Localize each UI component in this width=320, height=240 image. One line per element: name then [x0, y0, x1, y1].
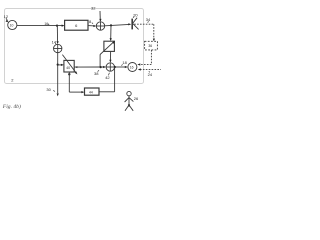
svg-text:14: 14: [52, 39, 57, 44]
node dot below block 40: [68, 73, 70, 75]
summer U14 (circle with cross): [54, 44, 62, 52]
wire: box6 to summer 32: [88, 25, 95, 27]
svg-text:2: 2: [11, 77, 14, 82]
leader 14: [55, 43, 56, 44]
svg-text:42: 42: [105, 75, 110, 80]
leader 8: [92, 23, 93, 24]
wire: summer 32 to transducer 20: [105, 24, 130, 25]
wire: vertical from node(111) into variable block: [110, 25, 112, 39]
wire: variable block bottom into summer 42: [110, 52, 112, 62]
svg-text:30: 30: [46, 87, 51, 92]
arrowhead into summer42 left: [103, 66, 106, 68]
variable block (no label) with diagonal arrow: [104, 41, 115, 51]
svg-text:20: 20: [133, 12, 138, 17]
svg-text:18: 18: [122, 60, 127, 65]
block 40 with diagonal arrow: [64, 60, 74, 72]
svg-text:Fig. 4b): Fig. 4b): [2, 103, 21, 110]
arrowhead into summer 32 top: [99, 19, 101, 22]
arrowhead output 30: [57, 93, 59, 96]
svg-text:40: 40: [66, 66, 70, 70]
wire: vertical from node(57.3) into summer 14: [56, 25, 58, 43]
block 36 (dashed): [153, 39, 155, 42]
wire: main line circle10 to box6: [17, 25, 63, 27]
svg-text:16: 16: [130, 66, 134, 70]
transducer 20 (bar with two diagonals): [131, 19, 133, 30]
wire: dashed from box36 down and left to receiver 16: [150, 50, 152, 64]
arrowhead into box 6: [62, 25, 65, 27]
wire: bottom main line box40 out to summer42 to circle 16: [75, 66, 78, 68]
svg-text:34: 34: [146, 17, 151, 22]
svg-text:38: 38: [94, 71, 99, 76]
leader 18: [121, 64, 122, 65]
node dot 38: [100, 66, 102, 68]
arrowhead into circle 16 left: [125, 66, 128, 68]
svg-text:12: 12: [4, 14, 9, 19]
wire: summer14 down to node and output 30: [57, 53, 59, 93]
enclosure box 2 (light gray): [5, 9, 144, 84]
svg-text:16: 16: [44, 22, 48, 26]
node junction dot at (57.3,24.8): [56, 25, 58, 27]
svg-text:10: 10: [10, 24, 14, 28]
summer U42 (circle with cross): [106, 63, 114, 71]
leader 20: [133, 17, 134, 18]
receiver circle 16: [128, 63, 137, 72]
source circle 10: [8, 20, 17, 29]
leader 34: [148, 21, 149, 22]
svg-text:6: 6: [75, 23, 78, 28]
arrow 12 leader: [6, 18, 8, 21]
leader 42: [108, 73, 109, 76]
wire: block40 bottom down to feedback line: [68, 72, 70, 92]
leader 38: [98, 70, 99, 71]
wire: box44 out right and up to node: [99, 91, 115, 93]
wire: feedback bottom into box 44: [69, 91, 83, 93]
person 26 (stick figure): [127, 91, 131, 95]
svg-text:44: 44: [89, 90, 93, 94]
leader 24: [149, 71, 150, 72]
leader 30: [53, 90, 55, 91]
svg-text:8: 8: [89, 19, 92, 24]
leader 16: [48, 24, 49, 25]
node dot right of summer 42: [114, 66, 116, 68]
block 44: [85, 88, 100, 95]
wire: dashed from person path into receiver 16: [140, 69, 161, 71]
arrowhead into summer 32: [93, 25, 96, 27]
svg-text:36: 36: [148, 44, 152, 48]
wire: node to block 40: [58, 64, 63, 66]
wire: wiper tail down to node 38: [99, 54, 101, 67]
summer U32 (circle with cross): [96, 22, 104, 30]
node dot below summer 14: [57, 64, 59, 66]
block 6: [65, 20, 88, 30]
wire: dashed acoustic path 34 horizontal: [134, 23, 154, 25]
svg-text:26: 26: [134, 96, 139, 101]
arrowhead into transducer 20: [128, 23, 131, 25]
svg-text:32: 32: [91, 6, 96, 11]
wire: input 32 vertical: [99, 11, 101, 21]
wire: dashed vertical down to box 36: [153, 24, 155, 41]
svg-text:24: 24: [148, 72, 153, 77]
node junction dot at (111,24.7): [110, 24, 112, 26]
